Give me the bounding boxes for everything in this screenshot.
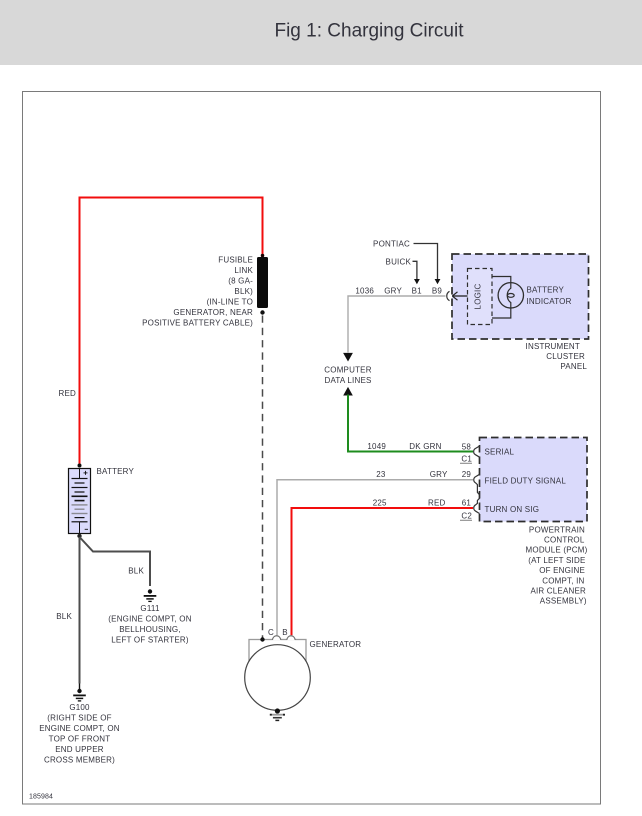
svg-text:1049: 1049	[367, 442, 386, 451]
arrow into logic module	[452, 292, 467, 300]
wire logic-to-bulb top	[492, 277, 511, 284]
wire DK GRN 1049 serial data	[348, 395, 473, 452]
svg-text:TURN ON SIG: TURN ON SIG	[485, 505, 540, 514]
svg-text:(ENGINE COMPT, ON: (ENGINE COMPT, ON	[108, 614, 191, 623]
svg-text:CROSS MEMBER): CROSS MEMBER)	[44, 755, 115, 764]
node junction at fusible link top	[261, 254, 265, 258]
svg-text:POWERTRAIN: POWERTRAIN	[529, 525, 585, 534]
node dashed wire at generator	[260, 637, 264, 641]
svg-text:BATTERY: BATTERY	[97, 467, 135, 476]
lamp battery indicator	[498, 283, 523, 308]
connector at PCM pin 61	[474, 498, 480, 513]
terminal B bump	[287, 636, 295, 641]
svg-text:29: 29	[462, 470, 472, 479]
instrument cluster panel box	[452, 254, 589, 339]
label BATTERY INDICATOR	[527, 286, 572, 307]
label COMPUTER DATA LINES	[324, 365, 371, 385]
wire BLK battery-to-G100	[79, 537, 81, 684]
diagram frame	[23, 92, 601, 805]
label wire 23 GRY pin 29	[376, 470, 471, 479]
title bar	[0, 0, 642, 65]
wire BUICK callout	[413, 261, 417, 279]
svg-text:POSITIVE BATTERY CABLE): POSITIVE BATTERY CABLE)	[142, 319, 253, 328]
svg-text:B9: B9	[432, 287, 443, 296]
wire BLK battery-to-G111	[80, 537, 151, 586]
svg-text:CONTROL: CONTROL	[544, 536, 585, 545]
svg-text:23: 23	[376, 470, 386, 479]
lamp filament	[507, 283, 514, 308]
svg-text:RED: RED	[59, 389, 77, 398]
wire RED battery-to-fusible-link (red)	[80, 198, 263, 466]
connector at PCM pin 58	[474, 446, 480, 457]
svg-text:185984: 185984	[29, 794, 53, 801]
ground G111	[144, 589, 157, 601]
svg-text:SERIAL: SERIAL	[485, 448, 515, 457]
ground G100	[73, 684, 86, 701]
svg-text:GRY: GRY	[384, 287, 402, 296]
terminal C bump	[272, 636, 280, 641]
svg-text:INSTRUMENT: INSTRUMENT	[526, 342, 580, 351]
svg-text:AIR CLEANER: AIR CLEANER	[530, 587, 586, 596]
ground generator case	[270, 708, 285, 720]
svg-text:GENERATOR, NEAR: GENERATOR, NEAR	[173, 308, 253, 317]
svg-text:GENERATOR: GENERATOR	[310, 640, 362, 649]
svg-text:1036: 1036	[355, 287, 374, 296]
powertrain control module box	[480, 438, 588, 522]
svg-text:(RIGHT SIDE OF: (RIGHT SIDE OF	[47, 713, 111, 722]
node red wire at battery positive	[78, 464, 82, 468]
svg-text:COMPUTER: COMPUTER	[324, 365, 371, 374]
generator housing	[249, 640, 306, 670]
svg-text:GRY: GRY	[430, 470, 448, 479]
svg-text:BATTERY: BATTERY	[527, 286, 565, 295]
svg-text:LOGIC: LOGIC	[474, 284, 483, 310]
svg-text:ASSEMBLY): ASSEMBLY)	[540, 597, 587, 606]
svg-text:PONTIAC: PONTIAC	[373, 239, 410, 248]
svg-text:(8 GA-: (8 GA-	[228, 277, 253, 286]
svg-text:FUSIBLE: FUSIBLE	[218, 256, 253, 265]
svg-text:225: 225	[373, 498, 387, 507]
svg-text:Fig 1: Charging Circuit: Fig 1: Charging Circuit	[274, 21, 464, 42]
svg-text:BLK: BLK	[56, 612, 72, 621]
svg-text:BUICK: BUICK	[386, 258, 412, 267]
wire dashed fusible-link-to-generator	[262, 316, 264, 640]
label connector C1	[460, 455, 472, 464]
wire GRY 1036 cluster-to-data-lines	[348, 296, 446, 353]
arrow to computer data lines	[343, 353, 353, 362]
wire PONTIAC callout	[414, 244, 438, 280]
svg-text:ENGINE COMPT, ON: ENGINE COMPT, ON	[39, 724, 120, 733]
label wire 1036 GRY with pins B1 B9	[355, 287, 442, 296]
svg-text:INDICATOR: INDICATOR	[527, 297, 572, 306]
battery BATTERY	[69, 469, 91, 534]
svg-text:(IN-LINE TO: (IN-LINE TO	[207, 298, 253, 307]
connector at PCM pin 29	[474, 474, 480, 495]
connector at cluster input	[447, 291, 450, 300]
svg-text:MODULE (PCM): MODULE (PCM)	[526, 546, 588, 555]
svg-text:BELLHOUSING,: BELLHOUSING,	[119, 625, 181, 634]
label fusible link	[142, 256, 253, 328]
arrow PONTIAC to B9	[435, 279, 441, 284]
label G100	[39, 703, 120, 764]
svg-text:DK GRN: DK GRN	[409, 442, 441, 451]
svg-text:G100: G100	[69, 703, 90, 712]
svg-text:RED: RED	[428, 498, 446, 507]
svg-text:TOP OF FRONT: TOP OF FRONT	[49, 734, 111, 743]
wire RED 225 turn on signal	[292, 508, 474, 635]
svg-text:BLK): BLK)	[234, 287, 253, 296]
svg-text:B: B	[282, 628, 288, 637]
label wire 225 RED pin 61	[373, 498, 472, 507]
arrow computer data lines up	[343, 387, 353, 396]
svg-text:C1: C1	[461, 455, 472, 464]
svg-text:(AT LEFT SIDE: (AT LEFT SIDE	[528, 556, 585, 565]
svg-text:LEFT OF STARTER): LEFT OF STARTER)	[111, 635, 189, 644]
wire GRY 23 field duty	[277, 480, 473, 636]
svg-text:FIELD DUTY SIGNAL: FIELD DUTY SIGNAL	[485, 477, 567, 486]
svg-text:OF ENGINE: OF ENGINE	[539, 566, 585, 575]
label G111	[108, 604, 191, 645]
label POWERTRAIN CONTROL MODULE (PCM)	[526, 525, 588, 605]
generator body circle	[245, 645, 311, 711]
node junction at fusible link bottom	[260, 310, 264, 314]
wire logic-to-bulb bottom	[492, 308, 511, 318]
svg-text:58: 58	[462, 442, 472, 451]
svg-text:CLUSTER: CLUSTER	[546, 352, 585, 361]
label wire 1049 DK GRN pin 58	[367, 442, 471, 452]
label connector C2	[460, 512, 472, 521]
label INSTRUMENT CLUSTER PANEL	[526, 342, 588, 371]
logic module U (dashed box)	[468, 269, 493, 325]
svg-text:G111: G111	[140, 604, 160, 613]
svg-text:C: C	[268, 628, 274, 637]
svg-text:DATA LINES: DATA LINES	[324, 376, 371, 385]
svg-text:BLK: BLK	[128, 567, 144, 576]
node battery negative junction	[77, 534, 81, 538]
svg-text:61: 61	[462, 498, 472, 507]
arrow BUICK to B1	[414, 279, 420, 284]
svg-text:B1: B1	[412, 287, 423, 296]
svg-text:COMPT, IN: COMPT, IN	[542, 576, 584, 585]
svg-text:LINK: LINK	[234, 266, 253, 275]
fusible link F (body)	[257, 257, 268, 308]
svg-text:C2: C2	[461, 512, 472, 521]
svg-text:END UPPER: END UPPER	[55, 745, 103, 754]
svg-text:PANEL: PANEL	[560, 362, 587, 371]
